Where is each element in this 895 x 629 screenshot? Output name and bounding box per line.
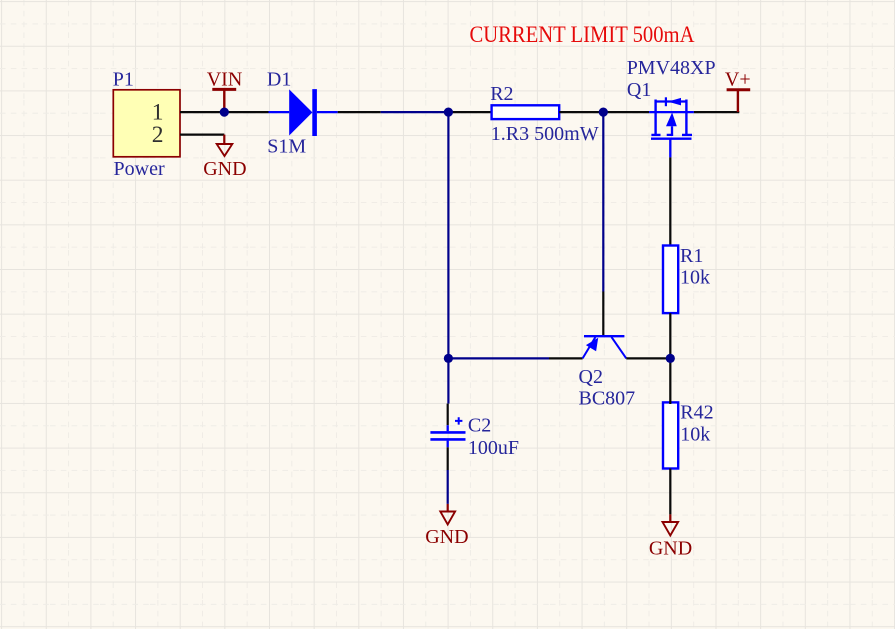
P1 pin 2 (180, 134, 224, 136)
junction node B (599, 108, 608, 117)
svg-text:P1: P1 (113, 69, 134, 91)
wire C2 to GND (447, 447, 449, 470)
junction node A (444, 108, 453, 117)
wire node B to Q1 (602, 111, 649, 113)
wire node D to R42 (669, 358, 671, 404)
svg-text:D1: D1 (267, 69, 291, 91)
power port VIN (212, 89, 236, 111)
wire node A to R2 (448, 111, 491, 113)
junction VIN node (220, 108, 229, 117)
junction node D (666, 354, 675, 363)
wire node A down to node C (447, 112, 449, 358)
wire R2 to node B (559, 111, 602, 113)
svg-text:C2: C2 (468, 414, 491, 436)
svg-text:R2: R2 (490, 83, 513, 105)
svg-text:10k: 10k (680, 267, 710, 289)
svg-text:Q2: Q2 (579, 366, 603, 388)
power port GND (input) (217, 135, 233, 156)
resistor R1 (663, 246, 678, 314)
svg-text:1.R3 500mW: 1.R3 500mW (491, 123, 599, 145)
transistor Q1 PMV48XP (649, 97, 694, 157)
wire VIN node to D1 (224, 111, 268, 113)
wire node C to Q2 emitter (448, 357, 549, 359)
svg-text:R42: R42 (680, 402, 713, 424)
wire Q1 gate to R1 (669, 157, 671, 245)
capacitor C2 (430, 417, 465, 447)
connector P1 body (113, 90, 180, 157)
wire R42 to GND (669, 469, 671, 515)
power port GND (R42) (663, 514, 679, 535)
power port V+ (727, 90, 751, 112)
wire Q2 collector to node D (626, 357, 670, 359)
svg-text:CURRENT LIMIT 500mA: CURRENT LIMIT 500mA (470, 22, 695, 48)
power port GND (C2) (440, 504, 455, 525)
wire D1 to node A (338, 111, 381, 113)
svg-text:S1M: S1M (267, 135, 306, 157)
svg-text:Power: Power (114, 158, 165, 180)
P1 pin 1 (180, 111, 224, 113)
diode D1 (269, 89, 338, 136)
svg-text:VIN: VIN (207, 68, 243, 90)
svg-text:GND: GND (649, 538, 692, 560)
svg-text:GND: GND (203, 158, 246, 180)
resistor R2 (492, 105, 560, 119)
svg-text:V+: V+ (725, 68, 751, 90)
svg-text:GND: GND (425, 526, 468, 548)
resistor R42 (663, 402, 678, 468)
svg-text:2: 2 (152, 122, 164, 148)
wire node C to C2 (447, 358, 449, 403)
junction node C (444, 354, 453, 363)
svg-text:100uF: 100uF (468, 437, 519, 459)
svg-text:R1: R1 (680, 245, 703, 267)
svg-text:Q1: Q1 (627, 79, 651, 101)
wire node B down to Q2 base (602, 112, 604, 291)
svg-text:PMV48XP: PMV48XP (627, 57, 716, 79)
svg-text:BC807: BC807 (579, 387, 636, 409)
wire Q1 to V+ (694, 111, 739, 113)
wire R1 to node D (669, 313, 671, 358)
transistor Q2 BC807 (583, 336, 627, 358)
svg-text:10k: 10k (680, 424, 710, 446)
